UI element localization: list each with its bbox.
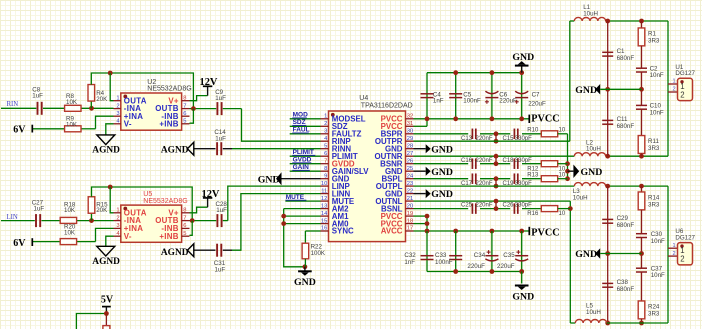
svg-text:2: 2 xyxy=(680,90,684,99)
svg-text:U4: U4 xyxy=(359,95,368,102)
svg-text:23: 23 xyxy=(407,181,413,187)
svg-text:30: 30 xyxy=(407,129,413,135)
svg-text:5V: 5V xyxy=(101,295,114,306)
svg-text:25: 25 xyxy=(407,166,413,172)
svg-text:6V: 6V xyxy=(13,238,26,249)
svg-text:680nF: 680nF xyxy=(617,222,635,229)
svg-text:R16: R16 xyxy=(527,211,539,217)
svg-text:7: 7 xyxy=(183,103,186,109)
svg-text:3R3: 3R3 xyxy=(648,37,660,44)
svg-text:12V: 12V xyxy=(200,77,218,88)
svg-text:12: 12 xyxy=(321,196,327,202)
svg-text:10nF: 10nF xyxy=(650,109,664,116)
svg-text:21: 21 xyxy=(407,196,413,202)
svg-text:11: 11 xyxy=(321,188,327,194)
svg-text:16: 16 xyxy=(321,226,327,232)
svg-text:C16: C16 xyxy=(461,158,473,164)
svg-text:3R3: 3R3 xyxy=(648,201,660,208)
svg-text:10: 10 xyxy=(559,211,566,217)
svg-text:10uH: 10uH xyxy=(583,10,598,17)
svg-text:32: 32 xyxy=(407,114,413,120)
svg-text:PVCC: PVCC xyxy=(531,228,559,239)
svg-text:18: 18 xyxy=(407,218,413,224)
svg-text:1: 1 xyxy=(324,114,327,120)
svg-text:+INB: +INB xyxy=(159,232,178,241)
svg-text:10K: 10K xyxy=(66,121,78,128)
svg-text:10uH: 10uH xyxy=(586,146,601,153)
svg-text:220uF: 220uF xyxy=(499,98,517,105)
svg-text:AGND: AGND xyxy=(161,248,189,258)
svg-text:10: 10 xyxy=(321,181,327,187)
svg-text:13: 13 xyxy=(321,203,327,209)
svg-text:1: 1 xyxy=(673,243,676,249)
svg-text:V-: V- xyxy=(124,232,132,241)
svg-text:10: 10 xyxy=(559,173,566,179)
svg-text:1: 1 xyxy=(673,79,676,85)
svg-text:26: 26 xyxy=(407,158,413,164)
svg-text:12V: 12V xyxy=(202,189,220,200)
svg-text:1uF: 1uF xyxy=(215,267,226,274)
svg-text:1: 1 xyxy=(116,208,119,214)
svg-text:5: 5 xyxy=(324,143,327,149)
svg-text:3R3: 3R3 xyxy=(648,310,660,317)
svg-text:2: 2 xyxy=(116,215,119,221)
svg-text:AGND: AGND xyxy=(92,146,120,156)
svg-text:680nF: 680nF xyxy=(617,123,635,130)
svg-text:DG127: DG127 xyxy=(675,235,695,242)
svg-text:330pF: 330pF xyxy=(515,158,532,164)
svg-text:2: 2 xyxy=(673,251,676,257)
svg-text:C34: C34 xyxy=(474,252,486,259)
svg-text:17: 17 xyxy=(407,226,413,232)
svg-text:8: 8 xyxy=(324,166,327,172)
svg-text:680nF: 680nF xyxy=(617,55,635,62)
svg-text:10nF: 10nF xyxy=(650,72,664,79)
svg-text:C7: C7 xyxy=(532,91,540,98)
svg-text:3: 3 xyxy=(116,223,119,229)
svg-text:100nF: 100nF xyxy=(463,98,481,105)
svg-text:100K: 100K xyxy=(311,250,326,257)
svg-text:20K: 20K xyxy=(96,207,108,214)
svg-text:LIN: LIN xyxy=(7,214,18,221)
svg-text:6: 6 xyxy=(183,111,186,117)
svg-text:GND: GND xyxy=(431,167,453,178)
svg-text:GND: GND xyxy=(512,52,534,63)
svg-text:5: 5 xyxy=(183,231,186,237)
svg-text:100nF: 100nF xyxy=(435,259,453,266)
svg-text:10: 10 xyxy=(559,166,566,172)
svg-text:27: 27 xyxy=(407,151,413,157)
svg-text:2: 2 xyxy=(673,87,676,93)
svg-text:10nF: 10nF xyxy=(651,238,665,245)
svg-text:3: 3 xyxy=(324,129,327,135)
svg-text:14: 14 xyxy=(321,211,328,217)
svg-text:DG127: DG127 xyxy=(675,70,695,77)
svg-text:C25: C25 xyxy=(461,203,473,209)
svg-text:1: 1 xyxy=(116,96,119,102)
svg-text:29: 29 xyxy=(407,136,413,142)
svg-text:1uF: 1uF xyxy=(215,135,226,142)
svg-text:10: 10 xyxy=(559,128,566,134)
svg-text:2: 2 xyxy=(680,255,684,264)
svg-text:7: 7 xyxy=(183,215,186,221)
svg-text:1uF: 1uF xyxy=(216,207,227,214)
svg-text:220uF: 220uF xyxy=(497,263,515,270)
svg-text:TPA3116D2DAD: TPA3116D2DAD xyxy=(361,102,413,109)
svg-text:6: 6 xyxy=(324,151,327,157)
svg-text:AGND: AGND xyxy=(92,257,120,267)
svg-text:AVCC: AVCC xyxy=(381,227,403,236)
svg-text:1nF: 1nF xyxy=(404,259,415,266)
svg-text:C18: C18 xyxy=(503,158,515,164)
svg-text:R12: R12 xyxy=(527,166,539,172)
svg-text:19: 19 xyxy=(407,211,413,217)
svg-text:220nF: 220nF xyxy=(476,203,493,209)
svg-text:680nF: 680nF xyxy=(617,286,635,293)
svg-text:R13: R13 xyxy=(527,173,539,179)
svg-text:22: 22 xyxy=(407,188,413,194)
svg-text:220uF: 220uF xyxy=(528,100,546,107)
svg-text:330pF: 330pF xyxy=(515,203,532,209)
svg-text:5: 5 xyxy=(183,119,186,125)
svg-text:GND: GND xyxy=(431,189,453,200)
svg-text:GND: GND xyxy=(575,249,597,260)
svg-text:3R3: 3R3 xyxy=(648,145,660,152)
svg-text:10K: 10K xyxy=(64,230,76,237)
svg-text:GND: GND xyxy=(294,277,316,288)
svg-text:GND: GND xyxy=(512,292,534,303)
svg-text:15: 15 xyxy=(321,218,327,224)
svg-text:220nF: 220nF xyxy=(476,158,493,164)
svg-text:8: 8 xyxy=(183,208,186,214)
svg-text:1uF: 1uF xyxy=(215,95,226,102)
svg-text:3: 3 xyxy=(116,111,119,117)
svg-text:2: 2 xyxy=(116,103,119,109)
svg-text:NE5532AD8G: NE5532AD8G xyxy=(147,86,191,93)
svg-text:1uF: 1uF xyxy=(32,93,43,100)
svg-text:1nF: 1nF xyxy=(433,98,444,105)
svg-text:10K: 10K xyxy=(66,99,78,106)
svg-text:1uF: 1uF xyxy=(34,206,45,213)
svg-text:6: 6 xyxy=(183,223,186,229)
svg-text:V-: V- xyxy=(124,119,132,128)
svg-text:NE5532AD8G: NE5532AD8G xyxy=(143,198,187,205)
svg-text:9: 9 xyxy=(324,173,327,179)
svg-text:20: 20 xyxy=(407,203,413,209)
svg-text:31: 31 xyxy=(407,121,413,127)
svg-text:28: 28 xyxy=(407,143,413,149)
svg-text:PVCC: PVCC xyxy=(531,114,559,125)
svg-text:20K: 20K xyxy=(96,96,108,103)
svg-text:R10: R10 xyxy=(527,128,539,134)
svg-text:2: 2 xyxy=(324,121,327,127)
svg-text:6V: 6V xyxy=(13,124,26,135)
svg-text:GND: GND xyxy=(258,174,280,185)
svg-text:8: 8 xyxy=(183,96,186,102)
svg-text:7: 7 xyxy=(324,158,327,164)
svg-text:C35: C35 xyxy=(503,252,515,259)
svg-text:10uH: 10uH xyxy=(586,309,601,316)
svg-text:10uH: 10uH xyxy=(573,195,588,202)
svg-text:SYNC: SYNC xyxy=(332,227,354,236)
svg-text:10nF: 10nF xyxy=(651,272,665,279)
svg-text:10K: 10K xyxy=(64,207,76,214)
svg-text:AGND: AGND xyxy=(161,146,189,156)
svg-text:220uF: 220uF xyxy=(467,263,485,270)
svg-text:RIN: RIN xyxy=(7,101,19,108)
svg-text:GND: GND xyxy=(431,144,453,155)
svg-text:C26: C26 xyxy=(503,203,515,209)
svg-text:+INB: +INB xyxy=(159,119,178,128)
svg-text:24: 24 xyxy=(407,173,414,179)
svg-text:GND: GND xyxy=(575,85,597,96)
svg-text:GND: GND xyxy=(581,167,603,178)
